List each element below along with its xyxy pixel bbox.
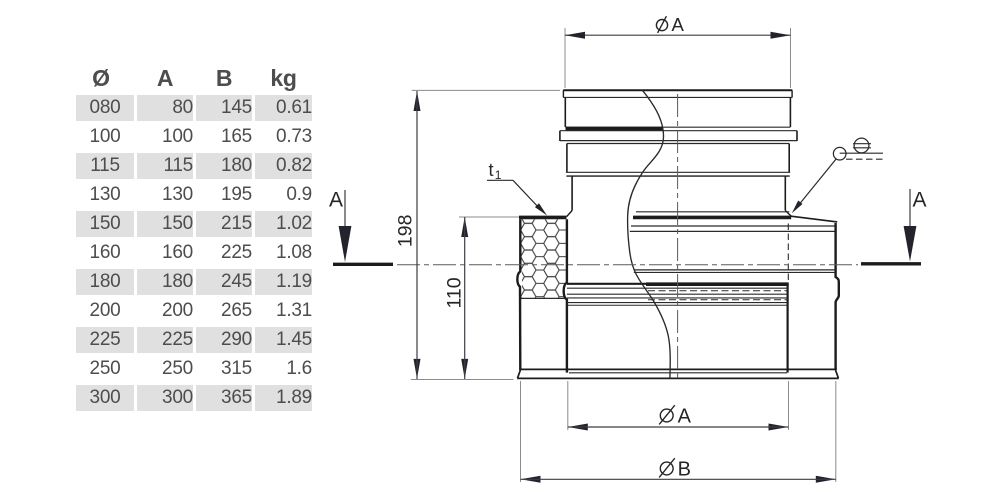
svg-text:A: A [672, 14, 685, 35]
svg-text:t: t [489, 160, 494, 180]
svg-text:A: A [329, 189, 343, 212]
svg-text:A: A [678, 405, 692, 427]
svg-text:A: A [913, 189, 927, 212]
svg-text:B: B [678, 459, 691, 481]
svg-text:198: 198 [395, 215, 417, 248]
svg-text:110: 110 [444, 277, 466, 308]
